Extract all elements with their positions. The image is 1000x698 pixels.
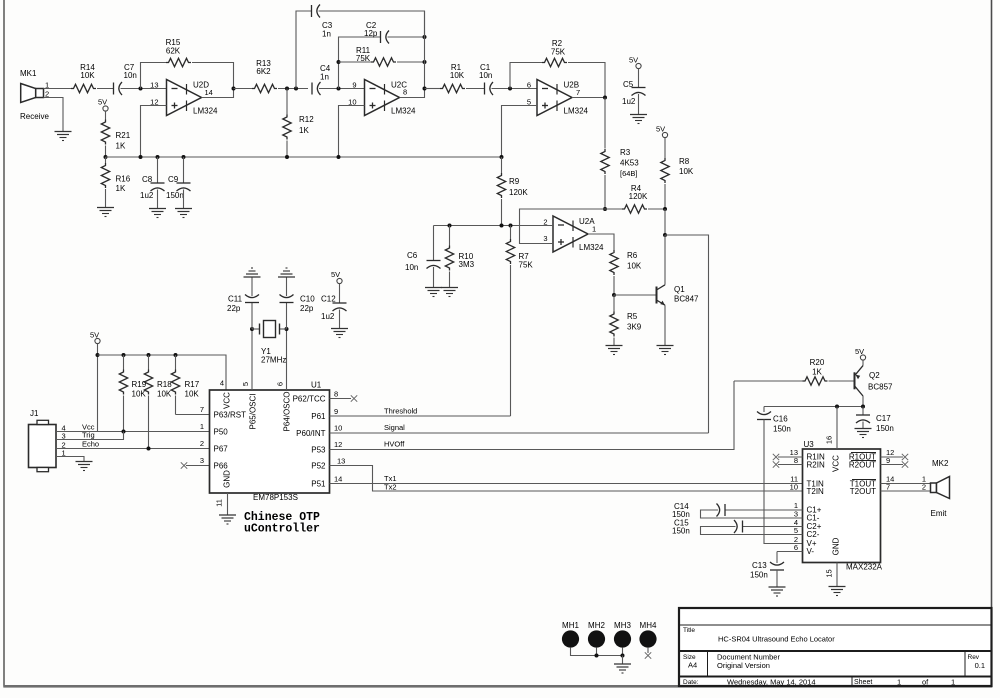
svg-text:P63/RST: P63/RST	[214, 411, 247, 420]
op-amp U2A	[543, 216, 604, 252]
node crystal/C11	[250, 327, 254, 331]
svg-text:75K: 75K	[519, 261, 534, 270]
svg-text:C9: C9	[168, 175, 179, 184]
svg-text:Q2: Q2	[869, 371, 880, 380]
node R12/rail junction	[285, 155, 289, 159]
wire C11 to ground	[251, 278, 253, 297]
microphone MK1 (Receive)	[20, 69, 49, 121]
svg-text:1: 1	[897, 678, 901, 687]
resistor R21	[101, 120, 130, 151]
title block label Title	[683, 627, 695, 634]
svg-text:LM324: LM324	[579, 243, 604, 252]
svg-text:1K: 1K	[299, 126, 309, 135]
op-amp U2C	[348, 80, 416, 116]
wire VCC rail Q2/C16/U3	[764, 406, 863, 408]
U1 left pin names	[214, 411, 247, 471]
svg-text:10K: 10K	[679, 167, 694, 176]
svg-text:LM324: LM324	[391, 107, 416, 116]
sheet border right	[991, 0, 993, 687]
svg-text:3M3: 3M3	[459, 260, 475, 269]
transistor Q2 BC857	[855, 360, 894, 406]
resistor R2	[542, 39, 567, 67]
title block label Date	[683, 679, 699, 686]
svg-text:R5: R5	[627, 312, 638, 321]
wire C17 to ground	[862, 422, 864, 429]
no-connect P62/TCC pin 8	[330, 390, 358, 402]
svg-text:MH2: MH2	[588, 621, 605, 630]
wire R8 node down to Q1 collector node	[664, 209, 666, 235]
title block document Original Version	[717, 661, 770, 670]
svg-text:U3: U3	[804, 440, 815, 449]
svg-text:120K: 120K	[509, 188, 528, 197]
svg-text:1K: 1K	[116, 184, 126, 193]
svg-text:62K: 62K	[166, 47, 181, 56]
svg-text:R18: R18	[157, 380, 172, 389]
svg-text:Wednesday, May 14, 2014: Wednesday, May 14, 2014	[727, 678, 816, 687]
wire U2C + input riser	[339, 106, 365, 158]
svg-text:12: 12	[334, 440, 342, 449]
node output riser/R11	[423, 60, 427, 64]
svg-text:1: 1	[200, 422, 204, 431]
svg-text:C6: C6	[407, 251, 418, 260]
svg-text:10K: 10K	[450, 71, 465, 80]
ground R10	[441, 288, 458, 297]
wire base R6 node to Q1	[614, 294, 657, 296]
capacitor C1	[479, 63, 493, 95]
svg-text:C8: C8	[142, 175, 153, 184]
capacitor C5 with 5V	[622, 56, 646, 107]
capacitor C15 loop C2+/C2-	[672, 519, 803, 536]
wire MK1 pin1 to R14	[44, 88, 72, 90]
svg-text:R9: R9	[509, 177, 520, 186]
svg-text:3: 3	[200, 456, 204, 465]
MK2 pin 2 label	[922, 483, 926, 492]
resistor R6	[610, 250, 642, 295]
svg-text:T2IN: T2IN	[807, 487, 825, 496]
svg-text:MH3: MH3	[614, 621, 631, 630]
resistor R14	[71, 63, 96, 93]
svg-text:14: 14	[205, 88, 213, 97]
pin 4 label C2+	[794, 518, 798, 527]
svg-text:11: 11	[215, 499, 224, 507]
node R21/R16 junction	[104, 155, 108, 159]
MK1 pin 2 label	[45, 90, 49, 99]
pin 1 label C1+	[794, 501, 798, 510]
svg-text:10n: 10n	[479, 71, 492, 80]
capacitor C12 with 5V	[321, 270, 347, 321]
node C7/U2D- junction	[139, 87, 143, 91]
svg-text:Signal: Signal	[384, 423, 405, 432]
wire C9 to ground	[183, 190, 185, 209]
svg-text:C10: C10	[300, 295, 315, 304]
node C4/U2C- junction	[337, 87, 341, 91]
svg-text:P60/INT: P60/INT	[296, 429, 325, 438]
sheet border bottom	[3, 685, 992, 688]
wire U2D feedback riser	[141, 63, 167, 89]
ground mounting holes	[614, 664, 631, 673]
wire U2D output	[202, 89, 234, 98]
wire R4 to R8 node	[648, 208, 665, 210]
svg-text:P67: P67	[214, 445, 229, 454]
svg-text:[64B]: [64B]	[620, 169, 638, 178]
svg-text:1: 1	[951, 678, 955, 687]
svg-text:VCC: VCC	[223, 392, 232, 409]
wire C8 to ground	[157, 190, 159, 209]
svg-text:1K: 1K	[812, 368, 822, 377]
pin 10 label T2IN	[790, 483, 798, 492]
mounting hole MH1	[562, 621, 580, 648]
svg-text:4K53: 4K53	[620, 159, 639, 168]
svg-text:MK1: MK1	[20, 69, 37, 78]
net label Tx2	[384, 483, 397, 492]
svg-text:MK2: MK2	[932, 459, 949, 468]
capacitor C17	[856, 407, 894, 434]
capacitor C7	[114, 63, 137, 95]
mounting hole MH4	[639, 621, 657, 648]
node riser/R11 junction	[337, 60, 341, 64]
svg-text:HVOff: HVOff	[384, 440, 405, 449]
net label Trig	[82, 431, 95, 440]
ground C6	[425, 288, 442, 297]
wire T1OUT to MK2	[881, 475, 931, 484]
svg-text:10K: 10K	[80, 71, 95, 80]
ground MK1	[55, 132, 72, 141]
node R7/U2A- junction	[509, 224, 513, 228]
node rail/R18 top	[147, 353, 151, 357]
IC U1 EM78P153S box	[210, 381, 330, 494]
svg-text:R17: R17	[185, 380, 200, 389]
svg-text:10: 10	[790, 483, 798, 492]
svg-text:5V: 5V	[629, 56, 638, 65]
ground C17	[855, 429, 872, 438]
svg-text:P65/OSCI: P65/OSCI	[249, 393, 258, 429]
resistor R9	[497, 157, 528, 226]
svg-text:6: 6	[794, 543, 798, 552]
wire R1 to C1	[466, 88, 485, 90]
J1 pin 4 label	[62, 424, 66, 433]
svg-text:A4: A4	[688, 661, 697, 670]
power 5V left rail	[90, 331, 100, 344]
svg-text:22p: 22p	[300, 304, 314, 313]
crystal Y1 27MHz	[252, 321, 287, 365]
svg-text:5V: 5V	[331, 270, 340, 279]
wire R14 to C7	[97, 88, 114, 90]
wire C12 to ground	[339, 310, 341, 329]
wire pin 5 riser	[251, 329, 253, 390]
wire T2OUT to MK2	[881, 483, 931, 492]
wire U2B output	[572, 97, 605, 99]
ground C5	[630, 115, 647, 124]
ground R5	[606, 346, 623, 355]
wire R15 to U2D output	[192, 63, 234, 89]
svg-text:MAX232A: MAX232A	[846, 563, 883, 572]
svg-text:5V: 5V	[855, 347, 864, 356]
J1 pin 1 label	[62, 449, 66, 458]
svg-text:6: 6	[527, 81, 531, 90]
MK2 pin 1 label	[922, 475, 926, 484]
node R13/R12 junction	[285, 87, 289, 91]
net label Vcc	[82, 423, 95, 432]
svg-text:R2OUT: R2OUT	[849, 461, 876, 470]
svg-text:22p: 22p	[227, 304, 241, 313]
node rail/U2D+ riser	[139, 155, 143, 159]
wire C16 to V+ pin	[764, 420, 803, 544]
IC U3 MAX232A box	[803, 440, 881, 563]
resistor R15	[166, 38, 191, 67]
svg-text:R6: R6	[627, 251, 638, 260]
svg-text:P64/OSCO: P64/OSCO	[283, 391, 292, 431]
node P50/R19 junction	[122, 430, 126, 434]
node C1/U2B- junction	[508, 87, 512, 91]
node U2C+ riser/rail	[337, 155, 341, 159]
wire U2B feedback riser	[510, 63, 542, 89]
wire Trig jog to P50 row	[56, 432, 124, 440]
node U2C output/rail	[423, 87, 427, 91]
ground C9	[175, 209, 192, 218]
pin 11 label rotated	[215, 499, 224, 507]
svg-text:1n: 1n	[320, 73, 329, 82]
capacitor C10	[280, 295, 316, 330]
wire C3 to U2C output riser	[319, 11, 425, 37]
wire J1 pin1 to ground	[56, 457, 84, 462]
svg-text:GND: GND	[832, 537, 841, 555]
title block label Rev	[968, 654, 980, 661]
power 5V for R8	[656, 125, 668, 138]
net label Echo	[82, 440, 99, 449]
svg-text:R16: R16	[116, 175, 131, 184]
svg-text:7: 7	[200, 405, 204, 414]
svg-text:150n: 150n	[876, 424, 894, 433]
node U2B output junction	[603, 96, 607, 100]
svg-text:BC847: BC847	[674, 295, 699, 304]
ground U3 pin 15	[829, 587, 846, 596]
title text HC-SR04 Ultrasound Echo Locator	[718, 635, 835, 644]
wire pin 11 GND stub	[227, 493, 229, 515]
no-connect R1OUT pin 12	[881, 448, 909, 460]
svg-text:8: 8	[403, 88, 407, 97]
wire C1 to U2B inverting input	[492, 88, 538, 90]
svg-text:150n: 150n	[672, 527, 690, 536]
op-amp U2B	[527, 80, 589, 116]
wire C4 to U2C inverting input	[319, 88, 365, 90]
node R4/R8 junction	[663, 207, 667, 211]
svg-text:75K: 75K	[551, 48, 566, 57]
power 5V for R21	[98, 98, 108, 112]
svg-text:13: 13	[150, 81, 158, 90]
net label Tx1	[384, 474, 397, 483]
svg-text:5V: 5V	[90, 331, 99, 340]
svg-text:P62/TCC: P62/TCC	[293, 395, 326, 404]
svg-text:10n: 10n	[405, 263, 418, 272]
resistor R13	[252, 59, 277, 93]
svg-text:1u2: 1u2	[140, 191, 154, 200]
pin 4 VCC label	[220, 379, 224, 388]
title block sheet numbers	[897, 678, 955, 687]
svg-text:uController: uController	[244, 523, 320, 536]
node R6/R5/Q1 base junction	[612, 293, 616, 297]
wire P51 to Tx1	[330, 475, 803, 484]
svg-text:12p: 12p	[364, 29, 378, 38]
J1 pin 3 label	[62, 432, 66, 441]
svg-text:J1: J1	[30, 409, 39, 418]
pin 3 label C1-	[794, 510, 798, 519]
U1 rotated pin name GND	[223, 470, 232, 488]
pin 6 label rotated	[276, 382, 285, 386]
svg-text:MH4: MH4	[640, 621, 657, 630]
svg-text:14: 14	[334, 475, 342, 484]
node C3 riser junction	[294, 87, 298, 91]
svg-text:2: 2	[922, 483, 926, 492]
U3 rotated VCC	[832, 455, 841, 472]
node rail/C9	[182, 155, 186, 159]
svg-text:P51: P51	[311, 480, 326, 489]
svg-text:C2-: C2-	[807, 530, 820, 539]
svg-text:T2OUT: T2OUT	[850, 487, 876, 496]
svg-text:5: 5	[241, 382, 250, 386]
J1 pin 2 label	[62, 441, 66, 450]
U3 part number	[846, 563, 883, 572]
wire MH3 stub	[622, 648, 624, 656]
wire Threshold net	[330, 407, 511, 417]
no-connect R2IN pin 8	[773, 456, 803, 468]
U3 left pin names	[807, 453, 825, 557]
svg-text:75K: 75K	[356, 54, 371, 63]
wire MH2 stub	[596, 648, 598, 656]
svg-text:C11: C11	[228, 295, 243, 304]
svg-text:5V: 5V	[98, 98, 107, 107]
ground C11 (inverted)	[244, 268, 261, 277]
svg-text:Threshold: Threshold	[384, 407, 417, 416]
svg-text:10K: 10K	[627, 262, 642, 271]
svg-text:P50: P50	[214, 428, 229, 437]
no-connect R1IN pin 13	[773, 448, 803, 460]
node U2B+/R9/rail junction	[500, 155, 504, 159]
MK1 pin 1 label	[45, 81, 49, 90]
wire C10 to ground	[286, 278, 288, 297]
wire U2D output to R13	[234, 88, 253, 90]
resistor R10	[445, 226, 474, 288]
wire pin 6 riser	[286, 329, 288, 390]
capacitor C3	[312, 5, 333, 39]
wire C3 riser	[296, 11, 312, 89]
title block label Size	[683, 654, 696, 661]
connector J1	[29, 409, 57, 472]
svg-text:of: of	[922, 678, 929, 687]
power 5V for Q2	[855, 347, 866, 360]
no-connect MH4	[645, 648, 651, 659]
pin 2 label V+	[794, 535, 798, 544]
svg-text:R21: R21	[116, 131, 131, 140]
wire U2C output to R1	[425, 88, 441, 90]
node Q1 collector junction	[663, 233, 667, 237]
resistor R17	[171, 355, 199, 415]
node R10/U2A- junction	[448, 224, 452, 228]
svg-text:Original Version: Original Version	[717, 661, 770, 670]
svg-text:1u2: 1u2	[321, 312, 335, 321]
svg-text:5: 5	[794, 526, 798, 535]
svg-text:13: 13	[337, 457, 345, 466]
wire U2B + input riser	[502, 106, 538, 158]
svg-text:R20: R20	[810, 358, 825, 367]
wire MK1 pin2 to ground	[44, 98, 64, 132]
wire U2A - input row	[434, 225, 554, 227]
svg-text:8: 8	[334, 390, 338, 399]
svg-text:Emit: Emit	[931, 509, 948, 518]
ground U1 pin 11	[219, 515, 236, 524]
svg-text:C17: C17	[876, 414, 891, 423]
title block rev 0.1	[975, 661, 985, 670]
svg-text:3K9: 3K9	[627, 323, 642, 332]
title block label Document Number	[717, 653, 780, 662]
label Chinese OTP	[244, 511, 320, 524]
capacitor C6	[405, 226, 441, 273]
svg-text:8: 8	[794, 456, 798, 465]
svg-text:EM78P153S: EM78P153S	[253, 493, 298, 502]
label uController	[244, 523, 320, 536]
wire U2D + input riser	[141, 106, 167, 158]
svg-text:1n: 1n	[322, 30, 331, 39]
resistor R8	[661, 138, 694, 209]
capacitor C13	[750, 552, 784, 580]
svg-text:4: 4	[220, 379, 224, 388]
pin 11 label T1IN	[790, 475, 798, 484]
wire 5V to R21	[105, 111, 107, 119]
node VCC/Q2 collector/C17	[861, 405, 865, 409]
capacitor C16	[757, 407, 791, 434]
svg-text:9: 9	[334, 407, 338, 416]
svg-text:150n: 150n	[166, 191, 184, 200]
svg-text:LM324: LM324	[193, 107, 218, 116]
svg-text:0.1: 0.1	[975, 661, 985, 670]
svg-text:Tx1: Tx1	[384, 474, 397, 483]
resistor R12	[283, 89, 314, 158]
resistor R18	[144, 355, 172, 449]
svg-text:15: 15	[825, 569, 834, 577]
node rail/R19 top	[122, 353, 126, 357]
wire C13 to ground	[776, 570, 778, 587]
pin 7 label	[200, 405, 204, 414]
svg-text:P52: P52	[311, 462, 326, 471]
svg-text:U1: U1	[311, 381, 322, 390]
resistor R19	[119, 355, 146, 432]
svg-text:5V: 5V	[656, 125, 665, 134]
U3 VCC pin 16 stub	[825, 407, 838, 450]
svg-text:R12: R12	[299, 115, 314, 124]
svg-text:7: 7	[886, 483, 890, 492]
mounting hole MH2	[588, 621, 606, 648]
wire Echo/P67 row	[56, 448, 210, 450]
svg-text:R8: R8	[679, 157, 690, 166]
wire 5V riser to P50 row	[97, 344, 99, 432]
U1 rotated pin names top	[223, 391, 292, 431]
svg-text:1K: 1K	[116, 142, 126, 151]
node MH2 junction	[595, 654, 599, 658]
wire R17 to P63/RST pin 7	[176, 414, 210, 416]
svg-text:LM324: LM324	[564, 107, 589, 116]
svg-text:GND: GND	[223, 470, 232, 488]
svg-text:1: 1	[592, 225, 596, 234]
wire bias rail y157	[106, 156, 502, 158]
wire C2 to output riser	[388, 36, 425, 38]
svg-text:HC-SR04 Ultrasound Echo Locato: HC-SR04 Ultrasound Echo Locator	[718, 635, 835, 644]
svg-text:BC857: BC857	[868, 383, 893, 392]
svg-text:Receive: Receive	[20, 112, 49, 121]
svg-text:C12: C12	[321, 295, 336, 304]
svg-text:27MHz: 27MHz	[261, 356, 286, 365]
svg-text:6K2: 6K2	[256, 67, 271, 76]
ground J1	[76, 462, 93, 471]
capacitor C4	[312, 64, 331, 95]
